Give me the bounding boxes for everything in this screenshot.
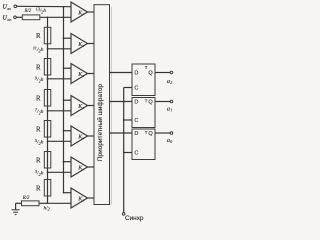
svg-text:T: T: [145, 65, 148, 71]
svg-text:D: D: [134, 100, 138, 106]
svg-text:D: D: [134, 131, 138, 137]
svg-text:C: C: [134, 151, 138, 157]
svg-text:R: R: [36, 95, 41, 102]
svg-text:C: C: [134, 86, 138, 92]
svg-text:R: R: [36, 33, 41, 40]
svg-text:R: R: [36, 64, 41, 71]
svg-text:R: R: [36, 157, 41, 164]
svg-text:R/2: R/2: [22, 196, 30, 201]
svg-text:T: T: [145, 99, 148, 105]
svg-text:R/2: R/2: [24, 9, 32, 14]
svg-text:Приоритетный шифратор: Приоритетный шифратор: [96, 83, 104, 161]
svg-text:вх: вх: [7, 6, 11, 11]
svg-text:R: R: [36, 126, 41, 133]
svg-text:D: D: [134, 71, 138, 77]
svg-text:Q: Q: [148, 131, 153, 137]
svg-text:Q: Q: [148, 71, 153, 77]
svg-text:R: R: [36, 185, 41, 192]
svg-text:h/2: h/2: [44, 205, 51, 211]
svg-text:T: T: [145, 130, 148, 136]
svg-text:C: C: [134, 118, 138, 124]
svg-text:Q: Q: [148, 100, 153, 106]
svg-text:оп: оп: [7, 17, 11, 22]
svg-text:Синхр: Синхр: [125, 215, 144, 222]
